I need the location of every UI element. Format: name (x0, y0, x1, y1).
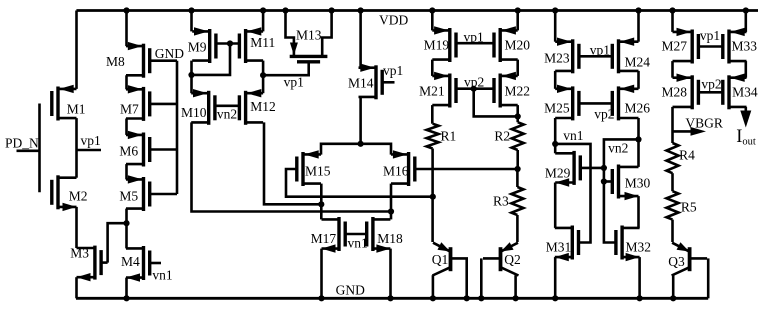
wire vn2 gates (604, 139, 639, 242)
transistor M31 (546, 226, 579, 262)
junction (227, 40, 233, 46)
svg-text:M23: M23 (544, 51, 570, 66)
wire vp2 gate line (698, 91, 722, 94)
wire (637, 196, 640, 228)
wire VDD rail (76, 9, 758, 12)
svg-text:M14: M14 (348, 76, 374, 91)
resistor R3 (493, 187, 523, 215)
junction (318, 295, 324, 301)
wire (465, 258, 468, 298)
transistor M16 (383, 150, 415, 186)
junction (123, 7, 129, 13)
wire (554, 257, 557, 298)
wire (125, 119, 128, 135)
svg-text:M25: M25 (544, 101, 570, 116)
junction (601, 165, 607, 171)
transistor M28 (662, 74, 699, 110)
transistor M15 (297, 150, 331, 186)
transistor M8 (106, 42, 177, 78)
wire M9/M11 gate line (216, 42, 240, 45)
junction (430, 194, 436, 200)
svg-text:R4: R4 (679, 148, 695, 163)
junction (601, 178, 607, 184)
resistor R4 (667, 143, 696, 173)
junction (358, 141, 364, 147)
junction (471, 86, 477, 92)
junction (464, 295, 470, 301)
transistor M11 (239, 27, 275, 63)
svg-text:vp2: vp2 (594, 107, 614, 122)
wire (75, 118, 78, 178)
svg-text:vp1: vp1 (590, 43, 610, 58)
svg-text:M24: M24 (625, 55, 651, 70)
transistor M24 (612, 38, 650, 74)
wire (554, 183, 557, 228)
wire vn1 gate line (345, 233, 367, 236)
wire (125, 11, 128, 47)
transistor M6 (119, 131, 177, 167)
svg-text:R3: R3 (493, 194, 509, 209)
resistor R2 (494, 122, 523, 150)
transistor M3 (70, 246, 107, 282)
wire (432, 275, 435, 298)
junction (388, 208, 394, 214)
wire vn2 gate line (215, 105, 240, 108)
svg-text:M1: M1 (67, 102, 86, 117)
junction (282, 7, 288, 13)
svg-text:Q3: Q3 (668, 254, 685, 269)
wire (431, 105, 434, 124)
junction (430, 295, 436, 301)
wire (108, 223, 127, 262)
junction (318, 201, 324, 207)
wire (77, 149, 102, 152)
svg-text:M9: M9 (188, 40, 207, 55)
svg-text:M28: M28 (662, 85, 688, 100)
wire (262, 61, 265, 94)
junction (552, 7, 558, 13)
junction (635, 136, 641, 142)
svg-text:R2: R2 (494, 129, 510, 144)
wire (390, 184, 393, 220)
transistor M13 (286, 11, 332, 62)
wire (671, 61, 674, 78)
svg-text:M22: M22 (505, 84, 531, 99)
junction (743, 7, 749, 13)
svg-text:M12: M12 (250, 99, 276, 114)
wire (516, 150, 519, 169)
wire (637, 118, 640, 167)
wire (671, 220, 674, 242)
wire (744, 11, 747, 32)
wire (516, 11, 519, 31)
junction (515, 7, 521, 13)
svg-text:R1: R1 (441, 129, 457, 144)
junction (670, 295, 676, 301)
wire (638, 257, 641, 298)
junction (635, 7, 641, 13)
transistor M10 (181, 89, 215, 125)
svg-text:M18: M18 (377, 231, 403, 246)
wire (554, 71, 557, 89)
svg-text:M8: M8 (106, 54, 125, 69)
wire (671, 11, 674, 32)
wire (75, 11, 78, 89)
svg-text:vp1: vp1 (81, 133, 101, 148)
wire (192, 122, 392, 211)
junction (552, 295, 558, 301)
svg-text:M3: M3 (70, 246, 89, 261)
transistor M23 (544, 38, 579, 74)
svg-text:PD_N: PD_N (5, 135, 39, 150)
svg-text:GND: GND (336, 283, 365, 298)
transistor M12 (239, 89, 275, 125)
junction (429, 7, 435, 13)
wire (707, 258, 710, 298)
wire vn1 to M31 gate (555, 144, 590, 243)
transistor M22 (494, 72, 530, 108)
wire (192, 44, 231, 75)
svg-text:vp1: vp1 (383, 63, 403, 78)
wire (554, 118, 557, 153)
junction (515, 166, 521, 172)
transistor M27 (662, 28, 699, 64)
transistor M33 (723, 28, 757, 64)
svg-text:M20: M20 (505, 38, 531, 53)
junction (387, 295, 393, 301)
svg-text:GND: GND (155, 46, 184, 61)
wire vp2 to M22 drain (474, 89, 518, 117)
wire (389, 249, 392, 299)
svg-text:VDD: VDD (379, 13, 408, 28)
wire (264, 122, 321, 204)
svg-text:vp1: vp1 (284, 75, 304, 90)
wire (516, 169, 519, 187)
wire vp1 node (263, 62, 309, 76)
wire (75, 207, 78, 248)
wire (431, 149, 434, 243)
transistor M20 (494, 26, 530, 62)
junction (260, 7, 266, 13)
junction (669, 7, 675, 13)
svg-text:M29: M29 (545, 166, 571, 181)
wire (516, 60, 519, 76)
svg-text:M30: M30 (625, 176, 651, 191)
wire (17, 150, 40, 153)
transistor M18 (367, 217, 403, 253)
wire vp1 gate line (698, 45, 722, 48)
wire vp2 gate line (456, 87, 494, 90)
transistor M4 (121, 246, 161, 282)
wire (637, 11, 640, 42)
wire (516, 215, 519, 242)
junction (123, 295, 129, 301)
svg-text:M7: M7 (120, 102, 139, 117)
resistor R5 (667, 191, 697, 219)
wire (320, 184, 323, 220)
junction (329, 7, 335, 13)
svg-text:VBGR: VBGR (685, 115, 723, 130)
wire (637, 71, 640, 89)
transistor M26 (612, 85, 650, 121)
svg-text:M16: M16 (383, 164, 409, 179)
svg-text:M15: M15 (305, 164, 331, 179)
wire (516, 105, 519, 122)
wire (262, 11, 265, 32)
junction (515, 113, 521, 119)
svg-text:Q2: Q2 (504, 252, 521, 267)
svg-text:M26: M26 (625, 101, 651, 116)
wire (190, 11, 193, 32)
svg-text:vp1: vp1 (464, 30, 484, 45)
wire (431, 60, 434, 76)
transistor M14 (348, 64, 395, 100)
svg-text:M10: M10 (181, 105, 207, 120)
svg-text:vn2: vn2 (608, 141, 628, 156)
wire (359, 11, 362, 68)
wire gate bus GND (176, 61, 179, 194)
wire (125, 164, 128, 179)
resistor R1 (427, 124, 457, 149)
svg-text:M21: M21 (419, 84, 445, 99)
transistor M32 (616, 226, 651, 262)
wire (125, 278, 128, 299)
svg-text:M13: M13 (296, 28, 322, 43)
wire (38, 104, 41, 193)
wire M16 gate (415, 168, 518, 171)
wire vp1 gate line (579, 55, 612, 58)
svg-text:Q1: Q1 (432, 252, 449, 267)
svg-text:M5: M5 (119, 189, 138, 204)
wire (672, 275, 675, 298)
wire (671, 173, 674, 191)
svg-text:M31: M31 (546, 240, 572, 255)
svg-text:M27: M27 (662, 39, 688, 54)
wire (75, 277, 78, 298)
svg-text:M33: M33 (732, 39, 758, 54)
transistor M30 (604, 165, 651, 201)
junction (188, 72, 194, 78)
transistor M1 (52, 85, 86, 121)
Iout output arrow (736, 107, 756, 148)
svg-text:R5: R5 (681, 200, 697, 215)
wire (431, 11, 434, 31)
transistor Q1 (432, 242, 468, 275)
transistor M7 (120, 85, 177, 121)
transistor M17 (311, 217, 346, 253)
junction (637, 295, 643, 301)
wire (125, 75, 128, 89)
wire (320, 249, 323, 299)
svg-text:M4: M4 (121, 254, 140, 269)
transistor Q2 (483, 242, 521, 275)
wire vp1 gate line (456, 42, 494, 45)
svg-text:vn1: vn1 (152, 268, 172, 283)
wire M15 gate (286, 169, 433, 197)
transistor M29 (545, 151, 604, 187)
svg-text:vn2: vn2 (217, 107, 237, 122)
svg-text:M2: M2 (69, 189, 88, 204)
wire (554, 11, 557, 42)
wire GND rail (76, 297, 708, 300)
svg-text:vn1: vn1 (563, 128, 583, 143)
transistor Q3 (668, 242, 707, 275)
junction (513, 295, 519, 301)
junction (478, 295, 484, 301)
junction (358, 7, 364, 13)
wire (125, 209, 128, 249)
wire (671, 107, 674, 143)
junction (552, 141, 558, 147)
svg-text:M34: M34 (732, 85, 758, 100)
junction (188, 7, 194, 13)
svg-text:vp1: vp1 (700, 28, 720, 43)
transistor M21 (419, 72, 456, 108)
wire (190, 61, 193, 94)
wire vp2 gate line (579, 102, 612, 105)
junction (260, 72, 266, 78)
wire (480, 258, 483, 298)
transistor M9 (188, 27, 216, 63)
transistor M34 (723, 74, 758, 110)
VBGR output arrow (673, 115, 723, 136)
svg-text:M19: M19 (424, 38, 450, 53)
transistor M5 (119, 175, 177, 211)
svg-text:M6: M6 (119, 144, 138, 159)
svg-text:vp2: vp2 (701, 77, 721, 92)
transistor M25 (544, 85, 579, 121)
junction (123, 220, 129, 226)
transistor M19 (424, 26, 456, 62)
transistor M2 (52, 175, 88, 211)
svg-text:vn1: vn1 (348, 236, 368, 251)
svg-text:M32: M32 (626, 240, 652, 255)
wire (514, 275, 517, 298)
svg-text:M17: M17 (311, 231, 337, 246)
svg-text:M11: M11 (250, 35, 275, 50)
wire (359, 97, 362, 144)
wire diff pair tail (321, 144, 391, 155)
wire (744, 61, 747, 78)
